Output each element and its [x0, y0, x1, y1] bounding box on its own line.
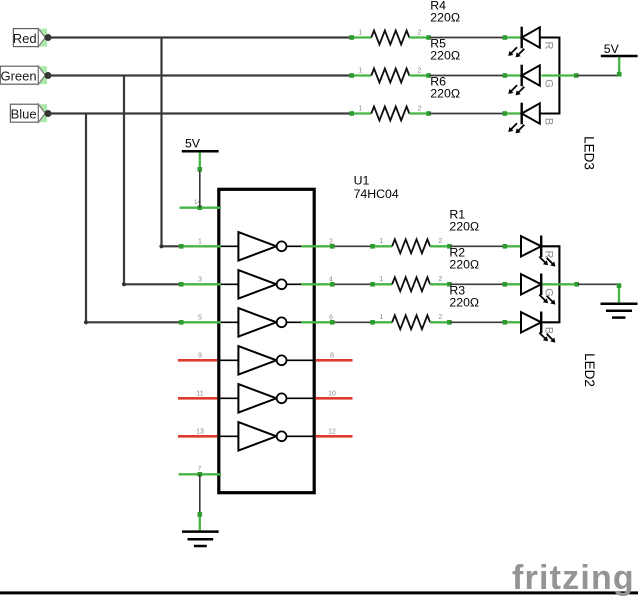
LED2 common pin leg: [542, 283, 578, 285]
wire Green net vertical branch: [123, 76, 125, 285]
svg-text:2: 2: [418, 105, 422, 112]
LED2 cathode rail: [541, 245, 559, 247]
pin 6 U1: [301, 314, 335, 324]
svg-text:220Ω: 220Ω: [430, 49, 460, 63]
wire Blue net vertical branch: [85, 114, 87, 323]
svg-text:2: 2: [418, 29, 422, 36]
svg-text:B: B: [542, 327, 554, 334]
svg-text:R: R: [543, 42, 555, 50]
wire 5V to pin 14: [199, 171, 201, 208]
pin 12 U1 unconnected: [316, 428, 353, 436]
resistor R1 220 ohm: [370, 238, 452, 253]
pin 3 U1: [179, 276, 221, 286]
pin 13 U1 unconnected: [178, 428, 217, 436]
svg-text:2: 2: [418, 67, 422, 74]
wire resistor to LED3: [430, 113, 505, 115]
LED3 B element: [503, 103, 555, 134]
svg-text:1: 1: [198, 238, 202, 245]
wire Blue net horizontal: [48, 112, 351, 114]
LED3 common pin leg: [541, 74, 577, 76]
svg-text:12: 12: [328, 428, 336, 435]
pin 2 U1: [301, 238, 335, 248]
ground left: [182, 512, 219, 546]
svg-text:220Ω: 220Ω: [449, 258, 479, 272]
resistor R4 220 ohm: [349, 29, 431, 44]
connector pin Blue: [10, 104, 51, 122]
wire U1 output to resistor: [335, 283, 372, 285]
connector pin Green: [0, 66, 51, 84]
svg-text:3: 3: [198, 276, 202, 283]
wire U1 output to resistor: [335, 245, 372, 247]
pin 10 U1 unconnected: [316, 390, 353, 398]
svg-text:13: 13: [196, 428, 204, 435]
wire Red net horizontal: [48, 36, 351, 38]
svg-text:220Ω: 220Ω: [430, 87, 460, 101]
svg-text:11: 11: [196, 390, 203, 397]
inverter gate 4: [220, 346, 313, 374]
svg-text:4: 4: [329, 276, 333, 283]
wire resistor to LED2: [450, 283, 504, 285]
wire Red branch to pin 1: [162, 245, 182, 247]
wire Green net horizontal: [48, 74, 351, 76]
bottom frame line: [0, 591, 638, 594]
svg-text:2: 2: [438, 314, 442, 321]
wire resistor to LED2: [450, 245, 504, 247]
svg-text:U1: U1: [354, 174, 370, 188]
wire Blue branch to pin 5: [86, 321, 181, 323]
svg-text:fritzing: fritzing: [512, 559, 635, 597]
svg-text:10: 10: [328, 390, 336, 397]
svg-text:5: 5: [198, 314, 202, 321]
inverter gate 1: [220, 232, 313, 260]
junction Blue branch: [84, 320, 88, 324]
svg-text:Red: Red: [13, 31, 37, 46]
inverter gate 5: [220, 384, 313, 412]
svg-text:6: 6: [329, 314, 333, 321]
pin 14 U1: [180, 199, 222, 210]
svg-text:220Ω: 220Ω: [430, 11, 460, 25]
svg-text:G: G: [543, 79, 555, 88]
svg-text:Blue: Blue: [11, 106, 37, 121]
svg-text:5V: 5V: [604, 42, 620, 56]
svg-text:B: B: [543, 118, 555, 125]
LED2 G element: [503, 274, 556, 305]
wire resistor to LED3: [430, 37, 505, 39]
LED3 anode rail: [540, 36, 560, 38]
wire Green branch to pin 3: [124, 283, 181, 285]
svg-text:5V: 5V: [185, 137, 201, 151]
supply 5V right: [601, 42, 638, 77]
wire U1 output to resistor: [335, 321, 372, 323]
junction Red branch: [159, 244, 163, 248]
svg-text:1: 1: [379, 276, 383, 283]
resistor R2 220 ohm: [370, 276, 452, 291]
pin 5 U1: [179, 314, 221, 324]
pin 9 U1 unconnected: [178, 352, 217, 360]
wire resistor to LED2: [450, 321, 504, 323]
svg-text:1: 1: [379, 314, 383, 321]
svg-text:7: 7: [198, 466, 202, 473]
svg-text:9: 9: [198, 352, 202, 359]
inverter gate 3: [220, 308, 313, 336]
svg-text:G: G: [542, 288, 554, 297]
svg-text:1: 1: [359, 29, 363, 36]
pin 1 U1: [179, 238, 221, 248]
resistor R3 220 ohm: [370, 314, 452, 329]
svg-text:R: R: [542, 251, 554, 259]
LED3 R element: [503, 27, 555, 58]
svg-text:2: 2: [438, 276, 442, 283]
wire pin 7 to ground: [199, 474, 201, 513]
wire LED2 common to ground: [578, 283, 619, 285]
svg-text:1: 1: [359, 67, 363, 74]
svg-text:LED2: LED2: [582, 353, 597, 387]
svg-text:74HC04: 74HC04: [354, 187, 399, 201]
svg-text:LED3: LED3: [582, 136, 597, 170]
LED2 B element: [503, 312, 556, 343]
inverter gate 6: [220, 422, 313, 450]
supply 5V left: [182, 137, 219, 172]
svg-text:220Ω: 220Ω: [449, 220, 479, 234]
wire Red net vertical branch: [160, 38, 162, 247]
pin 4 U1: [301, 276, 335, 286]
svg-text:8: 8: [330, 352, 334, 359]
op-amp ic U1 74HC04 body: [219, 189, 314, 492]
inverter gate 2: [220, 270, 313, 298]
ground right: [601, 283, 638, 317]
wire LED3 common to 5V: [577, 75, 619, 77]
svg-text:220Ω: 220Ω: [449, 296, 479, 310]
svg-text:2: 2: [329, 238, 333, 245]
pin 7 U1: [179, 466, 222, 477]
svg-text:1: 1: [359, 105, 363, 112]
LED3 G element: [503, 65, 555, 96]
svg-text:2: 2: [438, 238, 442, 245]
svg-text:Green: Green: [0, 68, 36, 83]
connector pin Red: [13, 29, 52, 47]
pin 8 U1 unconnected: [316, 352, 353, 360]
pin 11 U1 unconnected: [178, 390, 217, 398]
LED2 R element: [503, 236, 556, 267]
resistor R6 220 ohm: [349, 105, 431, 120]
resistor R5 220 ohm: [349, 67, 431, 82]
svg-text:1: 1: [379, 238, 383, 245]
wire resistor to LED3: [430, 75, 505, 77]
junction Green branch: [122, 282, 126, 286]
